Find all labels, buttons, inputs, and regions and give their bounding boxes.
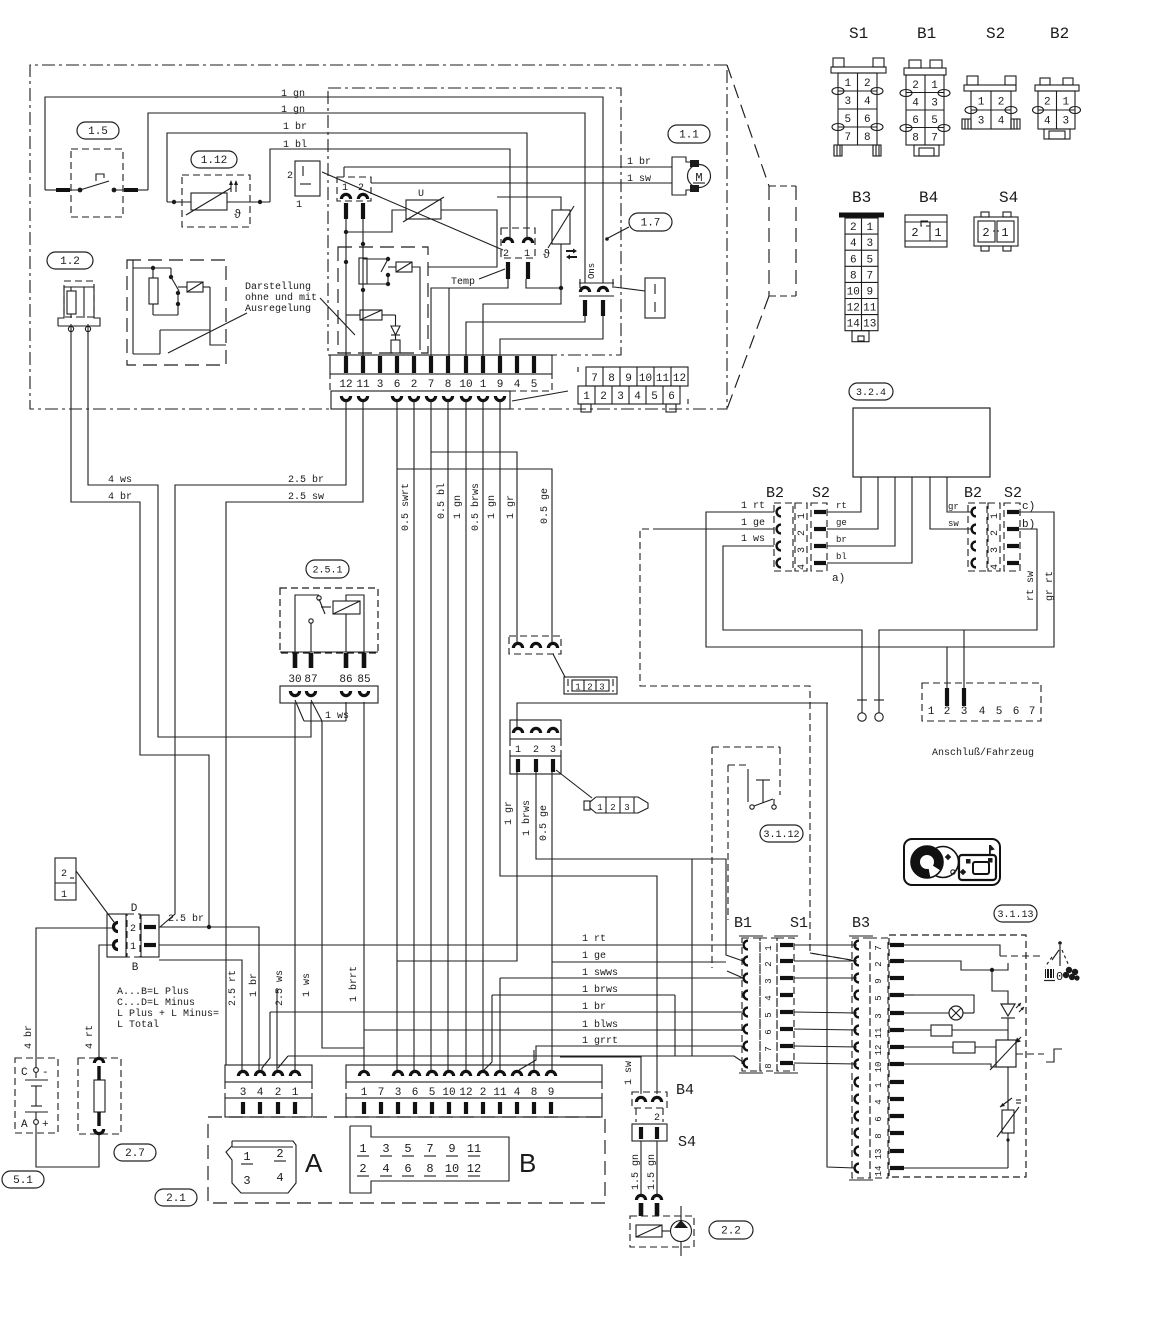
wire 4 ws [88, 324, 311, 737]
svg-text:S4: S4 [999, 189, 1018, 207]
svg-text:1: 1 [1001, 226, 1008, 240]
svg-text:1 blws: 1 blws [582, 1019, 618, 1031]
connector S2 right [1004, 503, 1020, 571]
svg-text:12: 12 [847, 303, 860, 315]
svg-text:9: 9 [548, 1087, 555, 1099]
svg-text:6: 6 [912, 115, 919, 127]
svg-text:B3: B3 [852, 189, 871, 207]
svg-text:1 gn: 1 gn [281, 105, 305, 116]
svg-text:1 brws: 1 brws [582, 984, 618, 996]
oval label 1.7 [629, 213, 672, 231]
wire B3 pin7 to external switch [904, 945, 1000, 956]
control panel 3.1.13 box [889, 935, 1026, 1177]
connector B1 column [739, 935, 763, 937]
svg-text:13: 13 [863, 319, 876, 331]
svg-text:bl: bl [836, 552, 847, 562]
svg-text:2: 2 [130, 924, 136, 935]
svg-text:1: 1 [524, 249, 530, 260]
relay 2.5.1 switch [295, 595, 319, 652]
svg-text:1: 1 [296, 200, 302, 211]
svg-text:11: 11 [656, 373, 670, 385]
svg-text:2: 2 [503, 249, 509, 260]
wire 2.5 br [160, 401, 346, 927]
svg-text:7: 7 [931, 132, 938, 144]
svg-text:3: 3 [382, 1142, 389, 1156]
svg-text:B3: B3 [852, 915, 870, 932]
svg-text:7: 7 [866, 270, 873, 282]
svg-text:B: B [132, 962, 139, 974]
wires 1.5 gn [640, 1141, 642, 1196]
svg-text:1 ge: 1 ge [741, 518, 765, 529]
svg-text:1 gn: 1 gn [281, 89, 305, 100]
oval label 3.2.4 [849, 383, 893, 400]
svg-text:ϑ: ϑ [234, 208, 241, 222]
svg-text:1 gn: 1 gn [453, 495, 464, 519]
connector 3pin lower pins [510, 756, 561, 774]
inner circuit wire pin12 [345, 219, 347, 356]
svg-text:11: 11 [863, 303, 877, 315]
svg-text:1: 1 [931, 80, 938, 92]
vehicle connector Anschluss [922, 683, 1041, 721]
enclosure heater unit outline [30, 65, 727, 409]
svg-text:2: 2 [411, 379, 418, 391]
connector B2 left [774, 503, 793, 571]
svg-text:2: 2 [850, 222, 857, 234]
svg-text:10: 10 [442, 1087, 455, 1099]
wire 1 sw [560, 1057, 641, 1094]
oval label 2.5.1 [306, 560, 349, 578]
control unit pin table [586, 367, 688, 386]
svg-text:2: 2 [874, 961, 884, 966]
svg-text:A: A [305, 1148, 323, 1178]
glow connector wires to pins 10 9 [466, 316, 585, 356]
oval label 5.1 [2, 1171, 44, 1188]
control unit connector 1 2 (blower) [337, 177, 371, 201]
wire pin2 down [413, 401, 415, 1070]
plug 1 2 3 lower [590, 797, 648, 813]
wire 1 ge [552, 961, 726, 963]
svg-text:2: 2 [287, 171, 293, 182]
svg-text:1 ge: 1 ge [582, 951, 606, 962]
svg-text:2: 2 [275, 1087, 282, 1099]
wire relay 87 to connector B pin1 [311, 700, 322, 721]
ring terminals [857, 699, 867, 701]
connector D B left [107, 914, 126, 957]
svg-text:2.5.1: 2.5.1 [312, 566, 342, 577]
oval label 1.1 [668, 125, 710, 143]
svg-text:3: 3 [617, 391, 624, 403]
thermistor arrows [566, 249, 577, 254]
svg-text:11: 11 [874, 1028, 884, 1039]
svg-text:0.5 ge: 0.5 ge [540, 488, 551, 524]
svg-text:5: 5 [531, 379, 538, 391]
connector S2 left [811, 503, 827, 571]
svg-text:8: 8 [864, 132, 871, 144]
svg-text:12: 12 [467, 1162, 481, 1176]
thermistor bottom lead [560, 244, 562, 288]
wire 1 gn (pin10) [465, 401, 467, 1070]
svg-text:1: 1 [575, 683, 580, 693]
svg-text:3.1.13: 3.1.13 [997, 910, 1033, 921]
oval label 1.5 [77, 122, 119, 139]
svg-text:L Total: L Total [117, 1019, 159, 1031]
svg-text:9: 9 [866, 286, 873, 298]
svg-text:5.1: 5.1 [13, 1175, 33, 1187]
svg-text:6: 6 [394, 379, 401, 391]
regulator circuit resistor [132, 260, 134, 354]
svg-text:2: 2 [587, 683, 592, 693]
fuse element [94, 1080, 105, 1112]
svg-text:ge: ge [836, 518, 847, 528]
connector D B middle [127, 914, 140, 957]
connector B4 number strip [635, 1108, 637, 1122]
svg-text:10: 10 [874, 1062, 884, 1073]
svg-text:S1: S1 [790, 915, 808, 932]
inner circuit resistor [359, 258, 367, 284]
LED symbol [1001, 1004, 1015, 1016]
thermistor top lead [497, 197, 561, 210]
svg-text:2.2: 2.2 [721, 1226, 741, 1238]
svg-text:2.7: 2.7 [125, 1148, 145, 1160]
wire D2 to A4 (1 br) [159, 927, 259, 1070]
wire B3 pin10 [904, 1064, 997, 1067]
svg-text:9: 9 [874, 978, 884, 983]
svg-text:0.5 swrt: 0.5 swrt [401, 483, 412, 531]
svg-text:3: 3 [377, 379, 384, 391]
svg-text:2.5 rt: 2.5 rt [228, 970, 239, 1006]
svg-text:3: 3 [844, 96, 851, 108]
svg-text:2.5 br: 2.5 br [168, 913, 204, 925]
svg-text:c): c) [1022, 501, 1035, 513]
svg-text:1 grrt: 1 grrt [582, 1036, 618, 1047]
pointer lines Darstellung [168, 313, 247, 353]
lamp symbol [949, 1006, 963, 1020]
svg-text:2: 2 [990, 530, 1001, 536]
wire 0.5 brws [482, 401, 484, 1070]
svg-text:12: 12 [874, 1045, 884, 1056]
svg-text:4: 4 [998, 116, 1005, 128]
svg-text:3: 3 [961, 706, 968, 718]
svg-text:1: 1 [243, 1150, 250, 1164]
svg-text:3: 3 [797, 547, 808, 553]
temp sensor wires to pins 7 8 [431, 279, 508, 356]
wire 1 blws [364, 1029, 742, 1031]
inner circuit diode [391, 326, 400, 335]
NTC thermistor [1002, 1110, 1014, 1133]
svg-text:1.5 gn: 1.5 gn [647, 1154, 658, 1190]
svg-text:1: 1 [978, 97, 985, 109]
svg-text:2: 2 [944, 706, 951, 718]
wire fuse to D1 4 rt [99, 945, 112, 1058]
voltage regulator U box [406, 200, 441, 219]
svg-text:3: 3 [624, 803, 629, 813]
connector A pin strip [225, 1098, 312, 1117]
inner circuit element [391, 340, 400, 353]
svg-text:gr: gr [948, 502, 959, 512]
svg-text:br: br [836, 535, 847, 545]
plug 1 2 3 upper [564, 677, 617, 694]
svg-text:3: 3 [395, 1087, 402, 1099]
svg-text:1.7: 1.7 [641, 218, 661, 230]
svg-text:2: 2 [480, 1087, 487, 1099]
svg-text:2: 2 [912, 80, 919, 92]
svg-text:1.5 gn: 1.5 gn [631, 1154, 642, 1190]
wire 1 bl from thermostat 1.12 [270, 149, 510, 237]
svg-text:B4: B4 [676, 1082, 694, 1099]
wire 4 br from sensor [71, 324, 209, 927]
wire 1 br horizontal [270, 1011, 742, 1013]
svg-text:30: 30 [288, 674, 301, 686]
svg-text:B: B [519, 1148, 536, 1178]
svg-text:2.5 br: 2.5 br [288, 474, 324, 486]
svg-text:8: 8 [608, 373, 615, 385]
connector B2 right [968, 503, 987, 571]
overheat sensor 1.2 terminals [68, 326, 73, 331]
wire 1 gr branch [431, 452, 517, 644]
svg-text:1: 1 [866, 222, 873, 234]
oval label 1.2 [47, 252, 93, 269]
svg-text:9: 9 [625, 373, 632, 385]
oval label 2.1 [155, 1189, 197, 1206]
temp sensor connector 2 1 [501, 228, 535, 258]
svg-text:3: 3 [990, 547, 1001, 553]
battery box 5.1 [15, 1058, 58, 1133]
svg-text:3: 3 [599, 683, 604, 693]
wire 1 br diagonal to A4 [262, 1012, 270, 1070]
connector D B right [141, 915, 159, 957]
svg-text:3: 3 [243, 1174, 250, 1188]
svg-text:S4: S4 [678, 1134, 696, 1151]
svg-text:0: 0 [1056, 970, 1063, 984]
svg-text:3.1.12: 3.1.12 [763, 830, 799, 841]
svg-text:2: 2 [610, 803, 615, 813]
svg-text:1 br: 1 br [283, 121, 307, 133]
svg-text:4: 4 [257, 1087, 264, 1099]
svg-text:1 swws: 1 swws [582, 968, 618, 979]
wire 2.5 sw [226, 401, 363, 1065]
svg-text:5: 5 [996, 706, 1003, 718]
pointer to plug 123 lower [556, 770, 592, 798]
thermostat 1.12 arrows [230, 182, 232, 192]
relay 2.5.1 box [280, 588, 378, 653]
svg-text:B2: B2 [964, 485, 982, 502]
svg-text:1 ws: 1 ws [325, 711, 349, 722]
B3 pin5 stub [904, 994, 914, 996]
control unit box [328, 88, 621, 355]
fuse box 2.7 [78, 1058, 121, 1134]
svg-text:B2: B2 [766, 485, 784, 502]
wires S1 to B3 [794, 944, 857, 946]
wire into lower connector pin1 [517, 703, 828, 729]
svg-text:1 ws: 1 ws [741, 534, 765, 545]
wire U left [346, 210, 406, 232]
svg-text:+: + [42, 1119, 49, 1131]
connector B4 [632, 1092, 667, 1108]
svg-text:S2: S2 [812, 485, 830, 502]
svg-text:5: 5 [931, 115, 938, 127]
svg-text:1 rt: 1 rt [582, 934, 606, 945]
svg-text:3: 3 [764, 978, 774, 983]
regulator display box [127, 260, 226, 365]
inner circuit wire pin11 [362, 219, 364, 356]
oval label 3.1.13 [994, 905, 1037, 922]
svg-text:C: C [21, 1067, 28, 1079]
svg-text:2.5 sw: 2.5 sw [288, 492, 324, 503]
relay 2.5.1 socket strip [280, 686, 378, 703]
svg-text:1 brrt: 1 brrt [348, 966, 360, 1002]
pointer to target box [614, 287, 645, 291]
svg-text:1 brws: 1 brws [521, 800, 533, 836]
svg-text:U: U [418, 189, 424, 200]
svg-text:12: 12 [673, 373, 686, 385]
wire pin7 down [430, 401, 432, 1070]
connector B housing icon [350, 1126, 509, 1193]
svg-text:12: 12 [339, 379, 352, 391]
svg-text:11: 11 [493, 1087, 507, 1099]
motor M 1.1 [672, 157, 699, 167]
svg-text:1.1: 1.1 [679, 130, 699, 142]
svg-text:4: 4 [764, 995, 774, 1000]
svg-text:4 br: 4 br [23, 1025, 35, 1049]
svg-text:2: 2 [797, 530, 808, 536]
wire 2.5 rt [159, 960, 242, 1070]
svg-text:11: 11 [467, 1142, 481, 1156]
glow plug connector (Ons) [579, 282, 614, 284]
wire D1 1 rt to B1 [159, 944, 742, 946]
svg-text:1: 1 [292, 1087, 299, 1099]
svg-text:7: 7 [1029, 706, 1036, 718]
svg-text:2: 2 [864, 78, 871, 90]
svg-text:8: 8 [912, 132, 919, 144]
svg-text:5: 5 [764, 1012, 774, 1017]
svg-text:7: 7 [844, 132, 851, 144]
heater connector block 2.1 box [208, 1117, 605, 1203]
svg-text:5: 5 [874, 995, 884, 1000]
svg-text:9: 9 [448, 1142, 455, 1156]
svg-text:7: 7 [426, 1142, 433, 1156]
metering pump 2.2 box [630, 1216, 694, 1247]
enclosure funnel to vehicle connector [727, 65, 769, 186]
pointer 1.7 [608, 227, 629, 238]
svg-text:2: 2 [600, 391, 607, 403]
svg-text:3.2.4: 3.2.4 [856, 388, 886, 399]
svg-text:85: 85 [357, 674, 370, 686]
svg-text:1: 1 [61, 890, 67, 901]
svg-text:4: 4 [276, 1171, 283, 1185]
wire B3 pin3 to lamp [904, 1012, 949, 1014]
svg-text:8: 8 [445, 379, 452, 391]
svg-text:6: 6 [764, 1029, 774, 1034]
svg-text:ohne und mit: ohne und mit [245, 292, 317, 304]
svg-text:2: 2 [359, 1162, 366, 1176]
svg-text:1 ws: 1 ws [302, 973, 313, 997]
svg-text:A...B=L Plus: A...B=L Plus [117, 986, 189, 998]
wire relay 30 to 86 (1 ws) [295, 700, 304, 721]
connector A socket strip [225, 1065, 312, 1082]
svg-text:6: 6 [404, 1162, 411, 1176]
wire B3 pin2 network [904, 961, 992, 970]
svg-text:1.2: 1.2 [60, 256, 80, 268]
svg-text:3: 3 [550, 745, 556, 756]
wire 1 ws to A1 [294, 703, 296, 1070]
svg-text:L Plus + L Minus=: L Plus + L Minus= [117, 1008, 219, 1020]
svg-text:1: 1 [359, 1142, 366, 1156]
thermostat 1.12 box [182, 175, 250, 227]
svg-text:2: 2 [654, 1113, 660, 1124]
wire 2.5 ws [276, 988, 278, 1070]
oval label 2.2 [709, 1221, 753, 1239]
wire 1 brws [492, 994, 675, 996]
svg-text:10: 10 [639, 373, 652, 385]
connector 3pin lower sockets [510, 720, 561, 739]
svg-text:1 br: 1 br [627, 156, 651, 168]
svg-text:4: 4 [990, 564, 1001, 570]
svg-text:8: 8 [850, 270, 857, 282]
svg-text:2.1: 2.1 [166, 1193, 186, 1205]
svg-text:4: 4 [979, 706, 986, 718]
wire 0.5 ge below [551, 772, 553, 1070]
overheat sensor 1.2 body [58, 287, 100, 326]
connector S2 right numbers [988, 503, 1000, 571]
svg-text:Darstellung: Darstellung [245, 281, 311, 293]
svg-text:A: A [21, 1119, 28, 1131]
svg-text:1 br: 1 br [248, 973, 260, 997]
svg-text:1: 1 [990, 513, 1001, 519]
svg-text:6: 6 [864, 114, 871, 126]
wire NTC to pin14 [1007, 1133, 1009, 1168]
wire 1 grrt [519, 1046, 742, 1070]
svg-text:3: 3 [1062, 116, 1069, 128]
thermostat 1.12 leads [167, 201, 191, 203]
svg-text:4: 4 [1044, 116, 1051, 128]
wire 1 gn (upper) [45, 97, 603, 283]
inner circuit relay 2 [360, 310, 382, 320]
oval label 2.7 [114, 1144, 156, 1161]
svg-text:Temp: Temp [451, 277, 475, 288]
svg-text:87: 87 [304, 674, 317, 686]
wire dashed to B3 pin2 [810, 953, 857, 961]
svg-text:1: 1 [130, 942, 136, 953]
svg-text:1: 1 [480, 379, 487, 391]
connector B3 pins [890, 943, 904, 947]
svg-text:C...D=L Minus: C...D=L Minus [117, 997, 195, 1009]
svg-text:4 rt: 4 rt [85, 1025, 96, 1049]
svg-text:5: 5 [404, 1142, 411, 1156]
svg-text:3: 3 [978, 116, 985, 128]
control dial icon [904, 839, 1000, 885]
svg-text:4: 4 [514, 379, 521, 391]
oval label 3.1.12 [760, 825, 803, 842]
svg-text:1: 1 [1062, 97, 1069, 109]
switch 1.5 contacts and blade [56, 189, 80, 191]
svg-text:S2: S2 [986, 25, 1005, 43]
wire 0.5 swrt [396, 401, 398, 1070]
svg-text:0.5 ge: 0.5 ge [539, 805, 550, 841]
svg-text:7: 7 [764, 1046, 774, 1051]
svg-text:4 ws: 4 ws [108, 475, 132, 486]
switch box 3.1.12 [712, 746, 780, 748]
wire bus to A2 [288, 1056, 743, 1062]
overheat sensor 1.2 box [64, 281, 94, 317]
wire battery plus to fuse [36, 1125, 99, 1167]
svg-text:7: 7 [428, 379, 435, 391]
switch S 1.5 box [71, 149, 123, 217]
control unit pin numbers [330, 374, 552, 391]
svg-text:6: 6 [1013, 706, 1020, 718]
svg-text:14: 14 [847, 319, 861, 331]
svg-text:4: 4 [864, 96, 871, 108]
svg-text:4: 4 [634, 391, 641, 403]
